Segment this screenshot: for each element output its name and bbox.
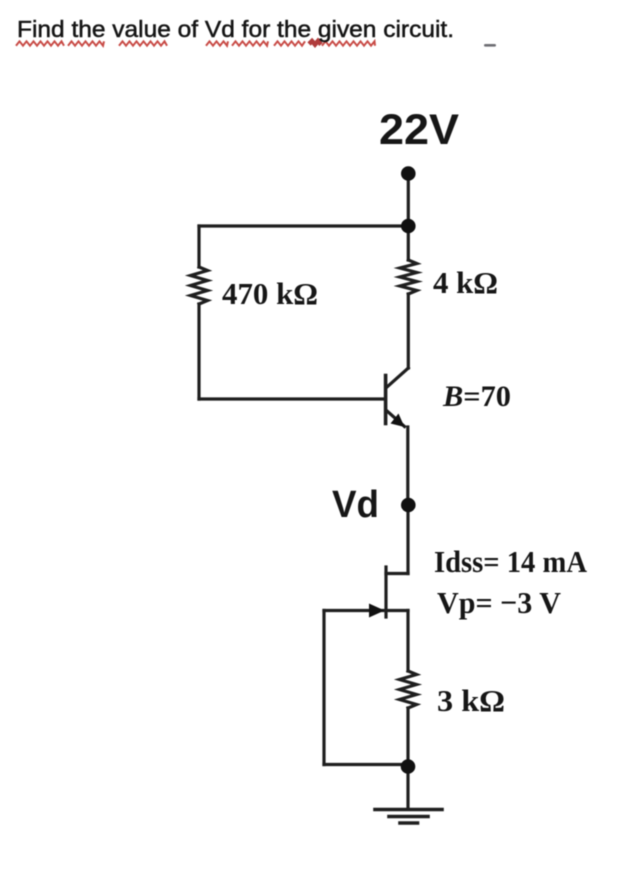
svg-text:B=70: B=70 xyxy=(442,380,511,413)
svg-text:Find the value of Vd for the g: Find the value of Vd for the given circu… xyxy=(17,16,454,42)
svg-text:Idss= 14 mA: Idss= 14 mA xyxy=(434,544,588,579)
svg-text:4 kΩ: 4 kΩ xyxy=(433,265,498,300)
svg-text:Vd: Vd xyxy=(332,484,379,526)
svg-text:470 kΩ: 470 kΩ xyxy=(222,276,318,311)
svg-text:Vp= −3 V: Vp= −3 V xyxy=(437,585,562,620)
svg-text:22V: 22V xyxy=(379,106,459,154)
svg-text:3 kΩ: 3 kΩ xyxy=(437,683,505,718)
